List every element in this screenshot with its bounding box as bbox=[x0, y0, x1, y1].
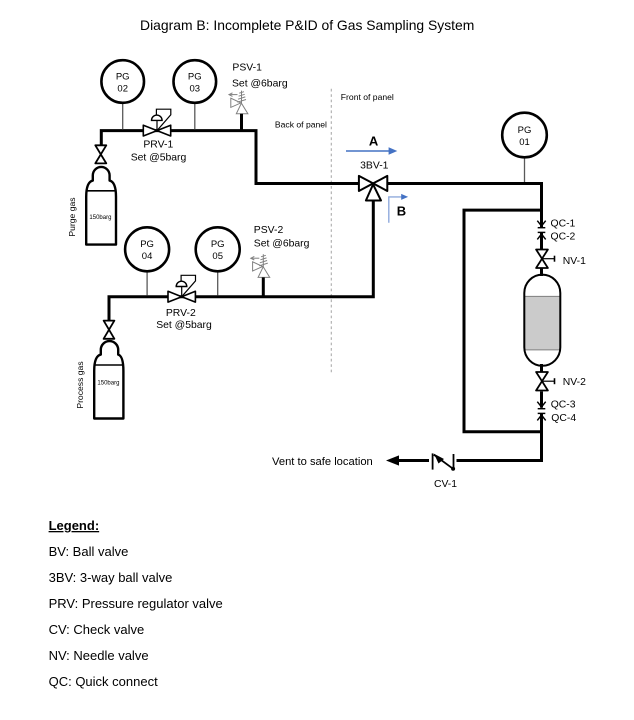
wire 3BV outlet pipe to sample leg bbox=[387, 184, 542, 228]
svg-text:NV: Needle valve: NV: Needle valve bbox=[49, 648, 149, 663]
svg-text:BV: Ball valve: BV: Ball valve bbox=[49, 544, 129, 559]
vessel sample cylinder bbox=[524, 275, 560, 366]
relief valve PSV-1 bbox=[229, 91, 248, 114]
svg-text:CV-1: CV-1 bbox=[434, 479, 457, 490]
gauge stem PG-02 bbox=[122, 103, 124, 130]
valve BV purge cylinder bbox=[95, 145, 106, 163]
svg-text:QC-4: QC-4 bbox=[551, 413, 576, 424]
svg-text:NV-1: NV-1 bbox=[563, 256, 586, 267]
svg-text:Diagram B: Incomplete P&ID of: Diagram B: Incomplete P&ID of Gas Sampli… bbox=[140, 17, 474, 33]
needle valve NV-2 bbox=[536, 372, 554, 391]
svg-text:QC-2: QC-2 bbox=[551, 232, 576, 243]
svg-text:PRV-1: PRV-1 bbox=[143, 140, 173, 151]
regulator PRV-2 bbox=[168, 275, 196, 302]
cylinder process gas bbox=[94, 341, 123, 418]
svg-text:PG: PG bbox=[518, 125, 532, 136]
svg-text:05: 05 bbox=[212, 251, 223, 262]
quick connect QC-4 bbox=[537, 413, 545, 420]
svg-text:Purge gas: Purge gas bbox=[67, 197, 77, 236]
vent arrowhead bbox=[386, 455, 399, 465]
flow arrow B bbox=[389, 197, 402, 223]
wire QC-2 to NV-1 bbox=[540, 232, 543, 250]
svg-text:02: 02 bbox=[117, 83, 128, 94]
svg-text:Set @5barg: Set @5barg bbox=[131, 152, 187, 163]
svg-text:CV: Check valve: CV: Check valve bbox=[49, 622, 145, 637]
panel divider dashed line bbox=[330, 89, 332, 373]
pressure gauge PG-05 bbox=[196, 227, 240, 271]
svg-text:Process gas: Process gas bbox=[75, 361, 85, 408]
svg-text:QC-1: QC-1 bbox=[551, 219, 576, 230]
pressure gauge PG-04 bbox=[125, 227, 169, 271]
three-way valve 3BV-1 bbox=[359, 176, 387, 201]
gauge stem PG-01 bbox=[524, 158, 526, 183]
gauge stem PG-05 bbox=[217, 271, 219, 296]
quick connect QC-3 bbox=[537, 402, 545, 409]
relief valve PSV-2 bbox=[251, 254, 270, 277]
svg-text:Vent to safe location: Vent to safe location bbox=[272, 456, 373, 468]
svg-text:PRV-2: PRV-2 bbox=[166, 308, 196, 319]
svg-text:B: B bbox=[397, 204, 406, 219]
svg-text:150barg: 150barg bbox=[97, 381, 119, 387]
wire NV-1 to vessel bbox=[540, 267, 543, 276]
svg-text:PG: PG bbox=[211, 239, 225, 250]
svg-text:Set @5barg: Set @5barg bbox=[156, 320, 212, 331]
svg-text:Set @6barg: Set @6barg bbox=[254, 239, 310, 250]
svg-text:Set @6barg: Set @6barg bbox=[232, 79, 288, 90]
quick connect QC-2 bbox=[537, 232, 545, 239]
cylinder purge gas bbox=[86, 167, 116, 245]
gauge stem PG-03 bbox=[194, 103, 196, 130]
needle valve NV-1 bbox=[536, 250, 554, 269]
valve BV process cylinder bbox=[104, 321, 115, 339]
svg-text:Back of panel: Back of panel bbox=[275, 120, 327, 130]
wire process-gas header pipe bbox=[109, 200, 373, 322]
relief valve PSV-1 stub bbox=[240, 114, 243, 131]
svg-text:Front of panel: Front of panel bbox=[341, 92, 394, 102]
svg-text:QC-3: QC-3 bbox=[551, 400, 576, 411]
svg-text:A: A bbox=[369, 134, 379, 149]
check valve CV-1 bbox=[433, 453, 456, 470]
svg-text:Legend:: Legend: bbox=[49, 518, 100, 533]
svg-text:QC: Quick connect: QC: Quick connect bbox=[49, 674, 158, 689]
pressure gauge PG-02 bbox=[101, 60, 144, 103]
wire vent line to arrow bbox=[396, 459, 429, 462]
wire purge-gas header pipe bbox=[101, 131, 360, 184]
svg-text:3BV-1: 3BV-1 bbox=[360, 161, 389, 172]
svg-text:PSV-2: PSV-2 bbox=[254, 225, 284, 236]
regulator PRV-1 bbox=[143, 109, 171, 136]
svg-text:NV-2: NV-2 bbox=[563, 377, 586, 388]
svg-text:PG: PG bbox=[140, 239, 154, 250]
quick connect QC-1 bbox=[537, 221, 545, 228]
pressure gauge PG-03 bbox=[174, 60, 217, 103]
svg-text:PRV: Pressure regulator valve: PRV: Pressure regulator valve bbox=[49, 596, 223, 611]
wire NV-2 to QC-3 bbox=[540, 392, 543, 408]
svg-text:PG: PG bbox=[116, 71, 130, 82]
wire bypass branch bbox=[464, 210, 542, 432]
svg-text:01: 01 bbox=[519, 137, 530, 148]
wire QC-4 down to vent line bbox=[457, 413, 542, 460]
svg-text:PG: PG bbox=[188, 71, 202, 82]
svg-text:150barg: 150barg bbox=[89, 215, 111, 221]
relief valve PSV-2 stub bbox=[262, 277, 265, 296]
wire vessel to NV-2 bbox=[540, 364, 543, 372]
gauge stem PG-04 bbox=[146, 271, 148, 296]
svg-text:3BV: 3-way ball valve: 3BV: 3-way ball valve bbox=[49, 570, 173, 585]
svg-text:03: 03 bbox=[190, 83, 201, 94]
svg-text:04: 04 bbox=[142, 251, 153, 262]
pressure gauge PG-01 bbox=[502, 113, 547, 158]
svg-text:PSV-1: PSV-1 bbox=[232, 62, 262, 73]
